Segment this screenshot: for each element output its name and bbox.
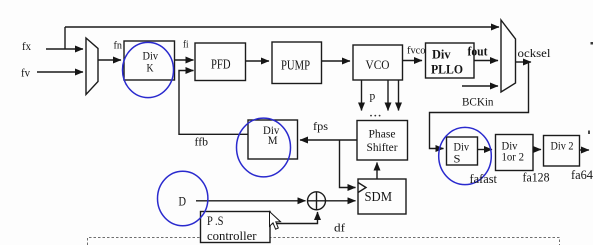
wire p phase outputs of VCO arrow 1 (361, 80, 363, 111)
charge pump PUMP box (272, 42, 322, 84)
svg-text:fps: fps (313, 121, 329, 133)
svg-text:fvco: fvco (407, 45, 426, 57)
wire SDM to Phase Shifter (376, 163, 378, 180)
wire ocksel loop down to Div S (430, 62, 529, 149)
svg-text:PFD: PFD (211, 57, 231, 72)
divider Div PLLO box (426, 43, 475, 78)
svg-text:p: p (370, 91, 376, 103)
P.S controller box (201, 212, 271, 243)
annotation ellipse around Div M (237, 118, 291, 177)
svg-text:PLLO: PLLO (431, 62, 463, 77)
svg-text:controller: controller (207, 229, 257, 243)
mux M2 output select trapezoid (501, 20, 516, 92)
svg-text:S: S (454, 154, 461, 166)
svg-text:Div 2: Div 2 (551, 141, 574, 153)
adder plus horizontal (308, 200, 326, 202)
wire fout Div PLLO to mux M2 (474, 60, 498, 62)
svg-text:PUMP: PUMP (281, 58, 310, 73)
svg-text:D: D (179, 195, 187, 209)
wire PUMP to VCO (322, 60, 351, 62)
svg-text:Div: Div (454, 142, 470, 154)
wire fvco VCO to Div PLLO (403, 60, 423, 62)
svg-text:fa128: fa128 (523, 171, 550, 185)
wire p arrow 2 (387, 80, 389, 111)
wire D input to adder (196, 200, 306, 202)
svg-text:fx: fx (22, 39, 31, 53)
svg-text:SDM: SDM (365, 189, 393, 204)
svg-text:fa64: fa64 (571, 168, 593, 182)
divider Div K box (124, 41, 175, 80)
svg-text:VCO: VCO (366, 57, 390, 72)
phase shifter box (357, 121, 408, 161)
svg-text:ffb: ffb (195, 137, 209, 149)
wire Div 1or2 to Div 2 (533, 149, 541, 151)
divider Div 2 box (544, 136, 580, 167)
wire ocksel output arrow (516, 61, 532, 63)
divider Div M box (248, 120, 298, 159)
wire adder to SDM (326, 200, 356, 202)
svg-text:K: K (147, 61, 154, 75)
stray mark right edge (588, 131, 590, 135)
svg-text:fafast: fafast (470, 172, 498, 186)
selection dashed border bottom (88, 238, 560, 245)
wire fn mux to Div K (98, 59, 121, 61)
wire Div S to Div 1or2 (478, 149, 493, 151)
wire df controller to adder (271, 212, 318, 224)
svg-text:df: df (334, 223, 345, 235)
divider Div 1or2 box (496, 135, 534, 171)
wire ffb feedback Div M to PFD (179, 71, 248, 135)
SDM clock triangle (358, 183, 366, 193)
PFD box (195, 43, 246, 81)
adder circle (308, 192, 326, 210)
svg-text:BCKin: BCKin (462, 95, 494, 109)
mouse cursor (270, 212, 281, 230)
stray dot top right (591, 42, 593, 45)
svg-text:fn: fn (114, 40, 123, 52)
wire fps Phase Shifter to Div M (300, 139, 357, 141)
wire top feedback horizontal (65, 26, 499, 28)
wire fx input (46, 48, 83, 50)
mux M1 input select trapezoid (86, 38, 98, 95)
annotation ellipse around Div S (439, 127, 492, 184)
wire fa64 output of Div 2 (580, 149, 590, 151)
svg-text:ocksel: ocksel (518, 46, 552, 60)
divider Div S box (447, 137, 478, 165)
wire top feedback vertical drop (64, 27, 66, 49)
adder plus vertical (316, 192, 318, 210)
wire fps branch down to SDM clock (340, 140, 356, 188)
svg-text:Phase: Phase (369, 127, 396, 141)
svg-text:fout: fout (468, 45, 489, 59)
svg-text:P .S: P .S (207, 214, 224, 228)
VCO box (353, 45, 403, 80)
annotation ellipse around D (158, 171, 208, 225)
label dots under p (370, 115, 372, 117)
wire BCKin input to mux M2 (462, 85, 498, 87)
svg-text:fv: fv (21, 66, 30, 80)
svg-text:Shifter: Shifter (367, 140, 398, 154)
annotation ellipse around Div K (123, 42, 174, 97)
wire p arrow 3 (398, 80, 400, 111)
wire PFD to PUMP (246, 60, 270, 62)
svg-text:Div: Div (432, 47, 451, 62)
svg-text:fi: fi (183, 40, 189, 51)
svg-text:M: M (268, 135, 278, 147)
wire fi Div K to PFD (175, 59, 194, 61)
svg-text:1or 2: 1or 2 (502, 152, 525, 164)
SDM box (358, 179, 406, 214)
wire fv input (37, 71, 83, 73)
